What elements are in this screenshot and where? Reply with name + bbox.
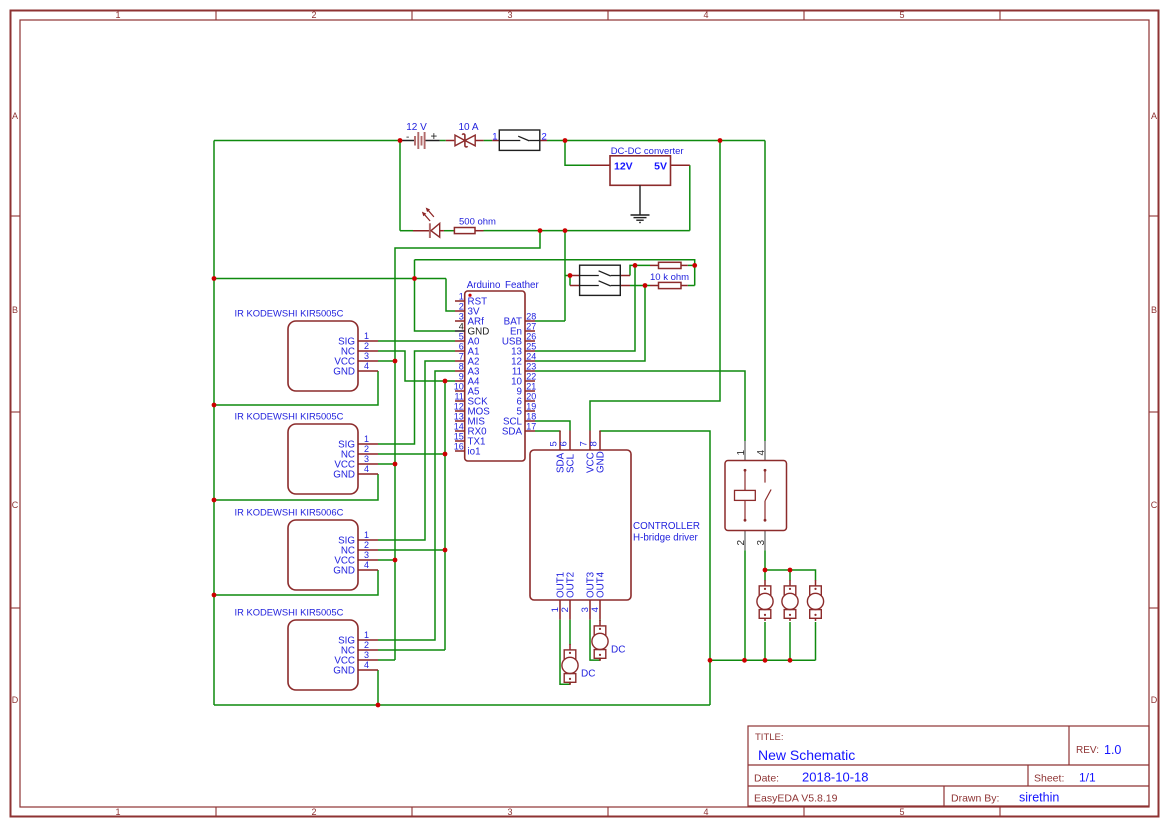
relay K1 [725,441,787,550]
svg-text:Sheet:: Sheet: [1034,773,1064,785]
svg-text:14: 14 [454,422,464,432]
svg-text:D: D [1151,695,1158,705]
svg-text:2: 2 [560,607,571,612]
wire 12V to relay pin4 [764,141,766,442]
svg-text:IR KODEWSHI KIR5006C: IR KODEWSHI KIR5006C [235,507,344,518]
wire BAT pin [535,320,565,322]
junction J20 [443,548,448,553]
svg-text:6: 6 [559,441,570,446]
svg-text:4: 4 [364,660,369,670]
LED D1 [413,208,444,239]
wire 5V to sensor VCC rail [395,231,540,660]
junction J17 [393,558,398,563]
svg-text:2: 2 [311,807,316,817]
wire led to resistor [444,230,455,232]
svg-text:SDA: SDA [502,427,523,438]
junction J6 [568,273,573,278]
title block [748,726,1149,806]
resistor R1 500 ohm [454,217,496,234]
wire dcdc input [565,141,590,166]
DC-DC converter U2 [590,146,690,185]
wire motorR2 bottom [789,622,791,660]
svg-text:1: 1 [492,132,497,143]
svg-text:10: 10 [454,382,464,392]
svg-text:1: 1 [364,331,369,341]
sensor U6 IR KODEWSHI KIR5005C [235,607,379,691]
svg-text:B: B [12,305,18,315]
junction J10 [212,276,217,281]
wire battery minus drop [399,141,401,231]
wire OUT2 to motorDC1 [569,620,571,645]
svg-text:500 ohm: 500 ohm [459,217,496,228]
svg-text:2018-10-18: 2018-10-18 [802,770,869,785]
junction J13 [212,593,217,598]
svg-text:GND: GND [596,451,607,473]
svg-text:IR KODEWSHI KIR5005C: IR KODEWSHI KIR5005C [235,607,344,618]
wire GND pin 4 [415,260,456,331]
wire sensor3 GND [214,570,378,595]
svg-text:4: 4 [703,807,708,817]
junction J18 [443,379,448,384]
svg-text:17: 17 [526,422,536,432]
svg-text:Feather: Feather [505,280,540,291]
controller U7 H-bridge driver [530,431,700,620]
junction J25 [788,658,793,663]
svg-text:12 V: 12 V [406,122,427,133]
svg-text:2: 2 [364,444,369,454]
wire motorR1 top [764,570,766,581]
svg-text:21: 21 [526,382,536,392]
wire 12V+ top rail [547,140,765,142]
wire switch out2 [630,285,650,287]
junction J22 [708,658,713,663]
junction J27 [788,568,793,573]
svg-text:25: 25 [526,342,536,352]
svg-text:11: 11 [454,392,463,402]
svg-text:5: 5 [459,332,464,342]
svg-text:A: A [12,111,18,121]
wire sensor2 GND [214,474,378,500]
wire fuse to switch [484,140,493,142]
IC U1 Arduino Feather [454,280,540,461]
junction J16 [393,462,398,467]
junction J12 [212,498,217,503]
svg-text:15: 15 [454,432,464,442]
svg-text:1: 1 [364,530,369,540]
svg-text:3: 3 [364,550,369,560]
svg-text:22: 22 [526,372,536,382]
svg-text:A: A [1151,111,1157,121]
svg-text:DC: DC [611,645,625,656]
svg-text:20: 20 [526,392,536,402]
svg-text:D: D [12,695,19,705]
junction J3 [718,138,723,143]
svg-text:9: 9 [459,372,464,382]
motor M4 [782,580,798,621]
svg-text:1: 1 [364,434,369,444]
wire 5V rail [484,230,690,232]
svg-text:TITLE:: TITLE: [755,732,784,743]
wire sensor2 VCC [378,463,395,465]
svg-text:C: C [12,500,19,510]
fuse F1 10A [446,122,484,147]
wire OUT1 to motorDC1 [560,620,570,685]
svg-text:OUT2: OUT2 [566,572,577,598]
svg-text:5V: 5V [654,160,667,172]
svg-text:SCL: SCL [566,453,577,473]
svg-text:REV:: REV: [1076,745,1099,756]
svg-text:16: 16 [454,442,464,452]
svg-text:1/1: 1/1 [1079,771,1096,785]
junction J23 [742,658,747,663]
svg-text:3: 3 [364,454,369,464]
wire sensor4 NC [378,649,445,651]
svg-text:sirethin: sirethin [1019,791,1059,805]
svg-text:GND: GND [333,470,355,481]
wire sensor3 VCC [378,559,395,561]
svg-text:B: B [1151,305,1157,315]
svg-text:12V: 12V [614,160,633,172]
wire battery to fuse [440,140,446,142]
wire switch pole link [569,276,571,286]
svg-text:C: C [1151,500,1158,510]
svg-text:2: 2 [311,10,316,20]
junction J7 [633,263,638,268]
svg-text:+: + [431,131,438,143]
wire sensor2 NC [378,453,445,455]
junction J14 [412,276,417,281]
svg-text:27: 27 [526,322,536,332]
svg-text:3: 3 [364,351,369,361]
svg-text:5: 5 [899,807,904,817]
svg-text:3: 3 [756,540,767,546]
wire motorDC1 bottom [569,682,571,685]
junction J9 [692,263,697,268]
svg-text:2: 2 [736,540,747,546]
svg-text:DC: DC [581,669,595,680]
wire motor ground rail [710,659,816,661]
wire SDA [535,430,560,433]
svg-text:19: 19 [526,402,536,412]
ground [631,185,650,222]
wire dcdc output [689,165,691,230]
motor M2 DC [592,620,626,661]
svg-text:1.0: 1.0 [1104,743,1121,757]
wire 5V to BAT and switch [564,231,566,321]
svg-text:2: 2 [364,640,369,650]
svg-text:H-bridge driver: H-bridge driver [633,533,699,544]
svg-text:26: 26 [526,332,536,342]
junction J21 [376,703,381,708]
wire OUT4 to motorDC2 [599,620,601,621]
svg-text:4: 4 [590,607,601,612]
wire controller GND [600,431,710,706]
switch S1 main power [492,130,547,150]
svg-text:1: 1 [459,292,464,302]
wire motorR3 bottom [815,622,817,660]
svg-text:Drawn By:: Drawn By: [951,793,999,805]
junction J8 [643,283,648,288]
motor M5 [807,580,823,621]
svg-text:4: 4 [459,322,464,332]
svg-text:6: 6 [459,342,464,352]
wire sensor1 VCC [378,360,395,362]
svg-text:CONTROLLER: CONTROLLER [633,521,700,532]
svg-text:8: 8 [459,362,464,372]
wire motorR1 bottom [764,622,766,660]
svg-text:IR KODEWSHI KIR5005C: IR KODEWSHI KIR5005C [235,308,344,319]
wire sensor3 SIG to A2 [378,361,455,540]
svg-text:2: 2 [542,132,547,143]
svg-text:1: 1 [736,450,747,456]
motor M1 DC [562,644,596,685]
wire left ground rail [213,141,215,706]
svg-text:IR KODEWSHI KIR5005C: IR KODEWSHI KIR5005C [235,411,344,422]
wire sensor4 SIG to A3 [378,371,455,640]
wire NC net vertical [444,381,446,650]
wire sensor1 NC to A4 [378,351,455,381]
svg-text:2: 2 [364,341,369,351]
wire sensor1 GND [214,371,378,405]
svg-text:2: 2 [459,302,464,312]
svg-text:13: 13 [454,412,464,422]
junction J15 [393,359,398,364]
wire sensor1 SIG to A0 [378,340,455,342]
svg-text:GND: GND [333,367,355,378]
svg-text:New Schematic: New Schematic [758,747,855,763]
svg-text:10 k ohm: 10 k ohm [650,272,689,283]
wire sensor2 SIG to A1 [378,351,455,444]
junction J4 [538,228,543,233]
wire sensor4 VCC [378,659,395,661]
svg-text:3: 3 [459,312,464,322]
resistor R3 10k [650,272,689,289]
battery BT1 12V [401,122,440,149]
svg-text:3: 3 [364,650,369,660]
svg-text:DC-DC converter: DC-DC converter [611,146,684,157]
wire ground to pulldowns [415,260,695,286]
svg-text:8: 8 [589,441,600,446]
svg-text:-: - [406,132,409,143]
resistor R2 10k [650,262,688,268]
svg-text:2: 2 [364,540,369,550]
junction J24 [763,658,768,663]
svg-text:28: 28 [526,312,536,322]
svg-text:4: 4 [703,10,708,20]
wire net12 to pin24 [535,286,645,362]
wire controller VCC to 12V [590,141,720,431]
svg-text:OUT4: OUT4 [596,571,607,598]
junction J2 [563,138,568,143]
wire relay pin3 to motors [764,550,766,570]
wire bottom ground rail [214,704,710,706]
wire switch out1 [630,265,650,275]
svg-text:GND: GND [333,566,355,577]
svg-text:Date:: Date: [754,773,779,785]
wire r10k1 right [688,264,695,266]
svg-text:4: 4 [756,450,767,456]
junction J5 [563,228,568,233]
wire net11 to relay pin1 [535,371,745,441]
svg-text:io1: io1 [468,447,481,458]
wire battery minus to rail [214,140,400,142]
svg-text:10 A: 10 A [458,122,478,133]
junction J11 [212,403,217,408]
svg-text:18: 18 [526,412,536,422]
wire SCL [535,421,570,431]
svg-text:GND: GND [333,666,355,677]
svg-text:1: 1 [364,630,369,640]
wire motorDC2 bottom [599,658,601,661]
svg-text:4: 4 [364,464,369,474]
sensor U5 IR KODEWSHI KIR5006C [235,507,379,591]
wire sensor4 GND [377,670,379,705]
junction J1 [398,138,403,143]
svg-text:1: 1 [115,10,120,20]
svg-text:12: 12 [454,402,464,412]
svg-text:7: 7 [459,352,464,362]
wire motorR2 top [789,570,791,581]
svg-text:24: 24 [526,352,536,362]
junction J19 [443,452,448,457]
svg-text:3: 3 [507,10,512,20]
wire led anode [400,230,413,232]
wire switch poles to 5V [565,275,570,277]
sensor U3 IR KODEWSHI KIR5005C [235,308,379,392]
svg-text:Arduino: Arduino [467,280,501,291]
svg-text:EasyEDA V5.8.19: EasyEDA V5.8.19 [754,793,838,805]
motor M3 [757,580,773,621]
svg-text:4: 4 [364,560,369,570]
junction J26 [763,568,768,573]
svg-text:1: 1 [115,807,120,817]
wire r10k2 right [688,285,695,287]
svg-text:4: 4 [364,361,369,371]
svg-text:5: 5 [899,10,904,20]
wire OUT3 to motorDC2 [590,620,600,661]
svg-text:3: 3 [507,807,512,817]
wire sensor3 NC [378,549,445,551]
wire ground branch [214,278,446,280]
sensor U4 IR KODEWSHI KIR5005C [235,411,379,495]
wire 3V pin [446,279,455,312]
wire motor feed rail [765,570,816,581]
svg-text:23: 23 [526,362,536,372]
switch S2 DPDT [570,265,630,295]
wire relay pin2 to ground [744,550,746,660]
wire net13 to pin25 [535,265,635,351]
